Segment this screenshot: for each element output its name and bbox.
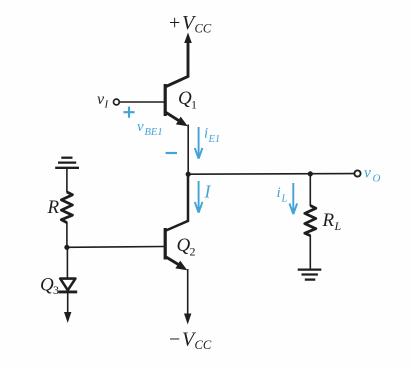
label vO: [364, 165, 381, 185]
cyan annotations: [123, 107, 380, 215]
svg-text:Q: Q: [177, 235, 191, 256]
svg-text:CC: CC: [195, 22, 212, 36]
arrowhead to -VCC: [184, 314, 191, 325]
arrowhead diode branch down: [64, 312, 71, 323]
wire ground to R: [66, 168, 68, 193]
resistor R: [61, 192, 72, 223]
plus sign vBE1: [123, 107, 134, 118]
label -VCC: [169, 329, 212, 353]
current arrow iL: [290, 183, 298, 214]
transistor Q1 base bar: [164, 84, 167, 116]
svg-text:R: R: [322, 210, 335, 231]
wire RL bottom: [309, 235, 311, 269]
svg-text:R: R: [47, 197, 60, 218]
transistor Q2 emitter arrowhead: [175, 261, 187, 271]
svg-text:BE1: BE1: [145, 127, 163, 138]
wire node to diode Q3: [66, 247, 68, 278]
wire emitter Q1 down to node: [187, 125, 189, 175]
wire output horizontal: [188, 173, 354, 176]
arrowhead up to +VCC: [184, 33, 192, 44]
diode Q3 triangle: [60, 279, 75, 291]
svg-text:L: L: [281, 194, 288, 205]
current arrow I: [195, 181, 203, 213]
resistor RL: [305, 206, 316, 236]
svg-text:3: 3: [53, 283, 59, 297]
node emitter junction: [186, 172, 191, 177]
wire collector Q1 to +VCC: [166, 41, 188, 87]
label +VCC: [169, 12, 212, 36]
svg-text:CC: CC: [195, 338, 212, 352]
op label Q1: [178, 88, 197, 112]
node RL junction: [308, 171, 313, 176]
svg-text:Q: Q: [40, 275, 54, 296]
wire RL top: [309, 174, 311, 206]
transistor Q2 collector diagonal: [166, 175, 188, 231]
ground left (inverted): [55, 158, 79, 168]
label vI: [97, 91, 110, 111]
current arrow iE1: [195, 127, 203, 159]
label Q2: [177, 235, 196, 259]
label iE1: [204, 126, 220, 146]
node bias junction: [64, 245, 69, 250]
terminal vO circle: [354, 170, 360, 176]
wire base lead Q2: [67, 246, 164, 249]
minus sign vBE1: [166, 152, 177, 154]
svg-text:Q: Q: [178, 88, 192, 109]
svg-text:v: v: [137, 119, 144, 135]
svg-text:O: O: [373, 173, 381, 185]
transistor Q1 emitter arrowhead: [176, 117, 188, 127]
svg-text:i: i: [277, 185, 281, 201]
wire emitter Q2 down: [187, 269, 189, 315]
svg-text:2: 2: [190, 245, 196, 259]
label iL: [277, 185, 288, 205]
svg-text:−: −: [169, 329, 180, 351]
wire R to node: [66, 222, 68, 247]
svg-text:E1: E1: [208, 134, 221, 145]
label vBE1: [137, 119, 163, 138]
transistor Q2 base bar: [164, 228, 167, 260]
label RL: [322, 210, 342, 233]
label Q3: [40, 275, 59, 298]
wire base lead Q1: [119, 101, 164, 103]
transistor Q1 emitter diagonal: [166, 113, 181, 123]
diode Q3 cathode bar: [58, 290, 77, 293]
svg-text:v: v: [364, 165, 371, 182]
wire diode down: [67, 293, 69, 314]
svg-text:L: L: [334, 219, 342, 233]
svg-text:I: I: [204, 182, 212, 202]
svg-text:+: +: [169, 12, 180, 34]
svg-text:I: I: [104, 99, 110, 111]
transistor Q2 emitter diagonal: [166, 257, 181, 266]
svg-text:1: 1: [191, 98, 197, 112]
ground right: [298, 270, 322, 280]
terminal vI circle: [114, 99, 120, 105]
